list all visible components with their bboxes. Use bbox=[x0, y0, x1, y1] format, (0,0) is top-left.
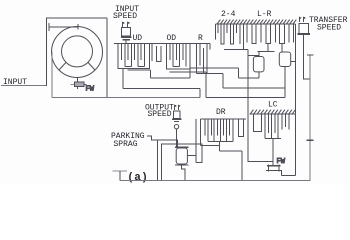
wire R hub output bbox=[206, 72, 285, 98]
wire converter housing right bbox=[106, 18, 108, 98]
clutch DR plates bbox=[205, 119, 230, 136]
node transfer mid tick bbox=[306, 139, 313, 141]
brake LC left U bbox=[254, 114, 262, 132]
wire DR link down bbox=[220, 141, 242, 180]
wire stator stem bbox=[76, 78, 78, 83]
output drum flange top bbox=[175, 146, 188, 148]
sensor output body bbox=[173, 111, 180, 119]
svg-text:FW: FW bbox=[86, 86, 95, 94]
wire pickup down bbox=[176, 129, 178, 147]
node stator ground T bbox=[49, 23, 78, 31]
svg-text:DR: DR bbox=[216, 108, 226, 117]
wire output right link bbox=[187, 119, 196, 163]
svg-text:LC: LC bbox=[268, 101, 278, 110]
clutch DR left arm bbox=[201, 119, 220, 146]
wire input shaft bbox=[1, 85, 47, 87]
planet capsule C2 bbox=[279, 52, 290, 67]
wire to planet C1 bbox=[248, 54, 259, 56]
sensor output arrows bbox=[175, 105, 179, 110]
clutch DR hub bar bbox=[208, 140, 233, 142]
wire output drum stem bbox=[182, 166, 185, 181]
wire sensor stem bbox=[125, 41, 127, 44]
wire bottom rail bbox=[120, 180, 311, 182]
wire L-R right arm bbox=[294, 24, 296, 175]
wire spoke right bbox=[88, 63, 95, 70]
wire terminal stem bbox=[119, 171, 121, 180]
brake LC plates bbox=[265, 114, 278, 139]
svg-text:R: R bbox=[198, 34, 203, 43]
freewheel FW1 bbox=[71, 84, 75, 86]
wire output carrier long bbox=[52, 97, 200, 99]
freewheel FW2 bbox=[267, 165, 281, 167]
brake L-R plates bbox=[247, 24, 293, 43]
node terminal T bbox=[113, 170, 127, 172]
wire C2 right tick bbox=[291, 61, 296, 63]
wire C2 stem bbox=[284, 67, 286, 98]
clutch DR rail bbox=[201, 118, 247, 120]
node top tick bbox=[77, 24, 79, 29]
svg-text:OD: OD bbox=[167, 34, 177, 43]
svg-text:UD: UD bbox=[133, 34, 143, 43]
brake LC ground hatch bbox=[250, 113, 296, 115]
svg-text:(a): (a) bbox=[127, 172, 148, 184]
brake L-R hub bbox=[258, 44, 282, 57]
wire spoke left bbox=[59, 63, 66, 70]
wire UD drum link bbox=[123, 68, 200, 97]
sensor input speed body bbox=[122, 28, 131, 36]
output drum capsule bbox=[176, 148, 187, 164]
wire FW2 link bbox=[282, 170, 296, 175]
brake 2-4 hub bar bbox=[224, 49, 248, 51]
clutch R drum bbox=[196, 44, 210, 74]
node transfer T-bar bbox=[307, 54, 313, 56]
clutch DR right U bbox=[238, 119, 243, 137]
wire parking pawl bbox=[147, 136, 178, 147]
svg-text:FW: FW bbox=[277, 158, 286, 166]
torque converter inner bbox=[62, 36, 93, 67]
wire mid hub U bbox=[157, 46, 162, 62]
wire case drop bbox=[157, 140, 159, 181]
brake 2-4 plates bbox=[215, 24, 217, 40]
brake LC hub bbox=[265, 139, 281, 166]
wire input rail bbox=[114, 43, 210, 45]
wire mid tooth bbox=[151, 44, 153, 61]
svg-text:SPEED: SPEED bbox=[113, 12, 137, 21]
wire 2-4 hub down bbox=[248, 50, 273, 162]
wire converter housing left bbox=[47, 18, 108, 86]
wire output case box bbox=[162, 144, 202, 181]
output drum flange bottom bbox=[175, 164, 188, 166]
svg-text:2-4: 2-4 bbox=[221, 10, 236, 19]
sensor transfer arrows bbox=[299, 17, 303, 22]
clutch R plates bbox=[200, 44, 207, 74]
node pickup circle bbox=[174, 125, 178, 129]
planet capsule C1 bbox=[253, 57, 264, 72]
svg-text:SPEED: SPEED bbox=[317, 24, 341, 33]
clutch OD drum bbox=[166, 44, 189, 69]
svg-text:INPUT: INPUT bbox=[3, 78, 27, 87]
wire turbine down bbox=[51, 52, 53, 98]
svg-text:SPEED: SPEED bbox=[148, 110, 172, 119]
clutch UD plates bbox=[122, 44, 142, 61]
sensor transfer body bbox=[299, 24, 309, 34]
clutch UD drum bbox=[118, 44, 149, 69]
sensor input speed arrows bbox=[123, 22, 128, 27]
brake case rail with ground hatch bbox=[216, 23, 296, 25]
clutch OD plates bbox=[170, 44, 183, 61]
torque converter outer bbox=[52, 27, 103, 78]
svg-text:SPRAG: SPRAG bbox=[114, 140, 138, 149]
wire OD drum link bbox=[190, 68, 259, 78]
svg-text:L-R: L-R bbox=[257, 10, 272, 19]
wire transfer shaft bbox=[309, 55, 311, 180]
wire transfer sensor stem bbox=[303, 35, 310, 79]
wire UD hub long bbox=[151, 69, 190, 78]
wire R drum output bbox=[196, 74, 285, 89]
clutch OD hub bar bbox=[170, 71, 206, 73]
wire C1 stem bbox=[258, 72, 260, 78]
clutch UD hub bbox=[128, 70, 151, 78]
